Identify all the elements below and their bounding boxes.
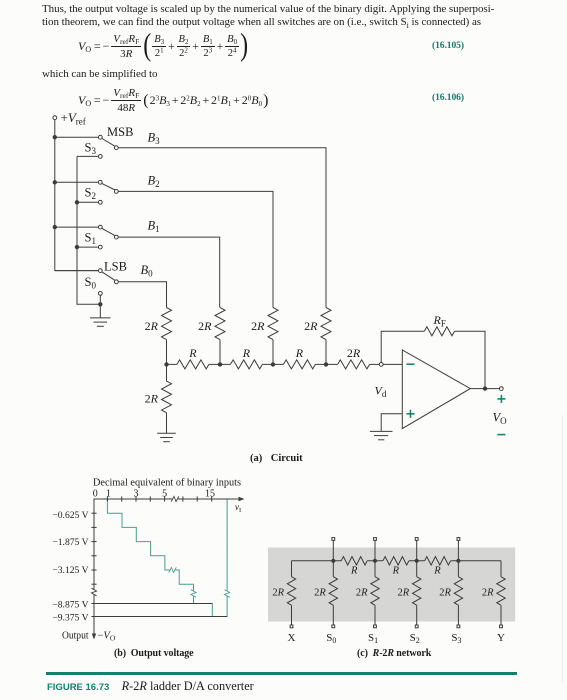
wire: B2 line [118,191,273,307]
svg-text:15: 15 [205,489,215,500]
node: ground-bus junction S1 [75,245,78,248]
resistor 2R (column 4) [321,308,331,340]
svg-text:B1: B1 [148,219,160,235]
svg-text:R: R [295,346,304,360]
wire: stub above S0 [332,541,334,561]
resistor 2R (column 3) [268,308,278,340]
svg-text:3: 3 [134,489,139,500]
caption (b) [114,648,194,659]
switch S0 [98,269,102,273]
terminal stub S1 [374,538,377,541]
wire: S2 branch to terminal [416,605,418,625]
op-amp minus sign [407,364,506,434]
node: rail junction S1 [373,559,376,562]
gray network panel [268,548,515,622]
wire: Vref bus [55,120,98,271]
switch S2 [98,180,102,184]
svg-text:+Vref: +Vref [61,110,86,127]
wire: 2R column 4 to ladder [325,340,327,365]
svg-text:−8.875 V: −8.875 V [52,599,88,610]
wire: ladder node 3 [262,363,283,365]
svg-text:2R: 2R [482,588,494,599]
wire: S0 lower contact to ground bus [99,296,101,305]
faint page edge line [562,415,563,682]
svg-text:S0: S0 [326,632,336,645]
wire: ladder node 4 [315,363,337,365]
caption (a) [250,453,303,464]
resistor 2R (S0 branch) [332,561,334,577]
terminal S3 [457,625,460,628]
node: rail junction S0 [332,559,335,562]
wire: S1 branch to terminal [374,605,376,625]
svg-text:R: R [433,566,441,577]
svg-text:5: 5 [162,489,167,500]
resistor 2R (column 2) [215,308,225,340]
ground (op-amp +) [370,430,393,432]
svg-text:2R: 2R [251,319,265,333]
wire: ground bus [77,156,100,304]
wire: B0 line [118,282,166,308]
node: ground-bus junction at S0 [99,303,102,306]
svg-text:RF: RF [433,313,446,329]
terminal S2 [415,625,418,628]
switch S3 [98,135,102,139]
terminal S0 [332,625,335,628]
wire: X branch to terminal [291,605,293,625]
break mark on staircase right edge [224,590,230,598]
svg-text:S3: S3 [85,141,97,157]
svg-text:vI: vI [235,502,241,514]
wire: stub above S1 [374,541,376,561]
wire: S3 lower contact to ground bus [77,155,98,157]
wire: feed to switch S2 [55,181,98,183]
svg-text:2R: 2R [145,392,159,406]
wire: stem to switch ground [99,304,101,318]
wire: 2R column 2 to ladder [219,340,221,365]
x-axis arrowhead [239,497,245,501]
svg-text:2R: 2R [398,588,410,599]
wire: feed to switch S3 [55,136,98,138]
ground (terminating) [157,432,176,434]
svg-text:Y: Y [497,632,505,644]
wire: B1 line [118,237,219,307]
svg-text:−VO: −VO [98,631,116,643]
wire: to inverting node [370,363,380,365]
svg-text:Decimal equivalent of binary i: Decimal equivalent of binary inputs [93,478,241,489]
resistor R (S0-S1) [341,557,367,565]
svg-text:X: X [288,632,296,644]
figure rule [46,672,517,675]
wire: 2R column 1 to ladder [166,340,168,365]
x axis [94,499,241,636]
svg-text:2R: 2R [145,319,159,333]
resistor R (ladder 3) [283,360,315,369]
terminal stub S2 [415,538,418,541]
resistor 2R (terminating) [166,364,168,381]
op-amp plus sign [407,413,415,415]
svg-text:−1.875 V: −1.875 V [52,537,88,548]
wire: S3 branch to terminal [457,605,459,625]
ground (switch bus) [90,317,111,319]
op-amp U1 [402,350,470,429]
svg-text:R: R [392,566,400,577]
svg-text:2R: 2R [356,588,368,599]
intro paragraph [42,3,494,33]
CIRCUIT (a) SVG [0,0,567,470]
svg-text:VO: VO [493,411,508,427]
wire: stub above S2 [416,541,418,561]
output plus sign [497,398,505,400]
resistor 2R (Y branch) [500,561,502,577]
output minus sign [497,434,505,436]
svg-text:2R: 2R [347,346,361,360]
svg-text:S2: S2 [410,632,420,645]
svg-text:1: 1 [106,489,111,500]
reference line -9.375 V [94,616,227,618]
wire: feed to switch S0 [55,270,98,272]
terminal stub S0 [332,538,335,541]
reference line -8.875 V [94,603,212,605]
break mark on x-axis [172,496,178,502]
caption (c) [357,648,431,659]
resistor 2R (X branch) [291,561,293,577]
svg-text:S0: S0 [85,275,97,291]
svg-text:−9.375 V: −9.375 V [52,612,88,623]
node: bus junction S3 [53,136,56,139]
node: ladder junction 1 [165,363,168,366]
svg-text:2R: 2R [439,588,451,599]
resistor 2R (series to op-amp) [338,360,370,369]
switch S1 [98,225,102,229]
resistor 2R (S1 branch) [374,561,376,577]
wire: output [470,388,499,390]
svg-text:2R: 2R [304,319,318,333]
wire: S2 lower contact to ground bus [77,201,98,203]
svg-text:R: R [188,346,197,360]
wire: feedback riser [381,331,424,362]
terminal X [290,625,293,628]
node: bus junction S2 [53,181,56,184]
equation 16.106 [78,87,268,115]
NETWORK (c) SVG [260,530,567,645]
node: ladder junction 2 [218,363,221,366]
svg-text:MSB: MSB [107,125,133,139]
node: inverting input (Vd) [379,363,383,367]
resistor R (ladder 2) [230,360,262,369]
svg-text:0: 0 [93,489,98,500]
resistor R (S1-S2) [383,557,409,565]
wire: S1 lower contact to ground bus [77,246,98,248]
svg-text:B3: B3 [148,131,161,147]
Vref input terminal [53,116,57,120]
wire: node to op-amp minus input [383,363,402,365]
svg-text:−3.125 V: −3.125 V [52,565,88,576]
svg-text:−0.625 V: −0.625 V [52,510,88,521]
wire: non-inverting to ground [381,414,402,432]
terminal Y [500,625,503,628]
svg-text:2R: 2R [314,588,326,599]
graph: staircase output waveform [107,499,227,617]
wire: Y branch to terminal [500,605,502,625]
svg-text:R: R [350,566,358,577]
svg-text:S1: S1 [368,632,378,645]
svg-text:2R: 2R [198,319,212,333]
node: rail junction S3 [457,559,460,562]
wire: ladder node 1 [167,363,177,365]
wire: feedback to output [455,331,486,388]
wire: 2R column 3 to ladder [272,340,274,365]
svg-text:R: R [242,346,251,360]
svg-text:B0: B0 [141,263,154,279]
terminal stub S3 [457,538,460,541]
wire: stub above S3 [457,541,459,561]
node: rail junction S2 [415,559,418,562]
resistor R (ladder 1) [177,360,209,369]
resistor R (S2-S3) [425,557,451,565]
break mark on y-axis [91,589,97,595]
node: ladder junction 3 [271,363,274,366]
svg-text:LSB: LSB [104,260,127,274]
wire: B3 line [118,148,326,308]
resistor 2R (S2 branch) [416,561,418,577]
terminal S1 [374,625,377,628]
svg-text:Vd: Vd [375,384,387,400]
node: ladder junction 4 [324,363,327,366]
wire: ladder node 2 [209,363,231,365]
GRAPH (b) SVG [0,470,300,645]
connecting text [42,68,157,81]
svg-text:B2: B2 [148,174,160,190]
node: bus junction S1 [53,225,56,228]
node: ground-bus junction S2 [75,201,78,204]
break mark on staircase step [169,567,177,573]
y-axis arrowhead [92,634,96,640]
break mark on staircase drop [190,590,196,598]
svg-text:S1: S1 [85,231,96,247]
figure caption [47,679,254,694]
resistor RF [424,327,454,336]
svg-text:Output: Output [62,631,89,642]
y-axis ticks [91,512,96,514]
wire: feed to switch S1 [55,226,98,228]
resistor 2R (S3 branch) [457,561,459,577]
svg-text:2R: 2R [272,588,284,599]
resistor 2R (column 1) [162,308,172,340]
svg-text:S2: S2 [85,186,96,202]
top rail wire [292,560,502,562]
wire: S0 branch to terminal [332,605,334,625]
x-axis ticks [106,496,108,501]
equation 16.105 [78,29,248,64]
output terminal [499,387,503,391]
wire: terminating 2R to ground [166,413,168,434]
node: output junction [483,387,486,390]
svg-text:S3: S3 [451,632,461,645]
